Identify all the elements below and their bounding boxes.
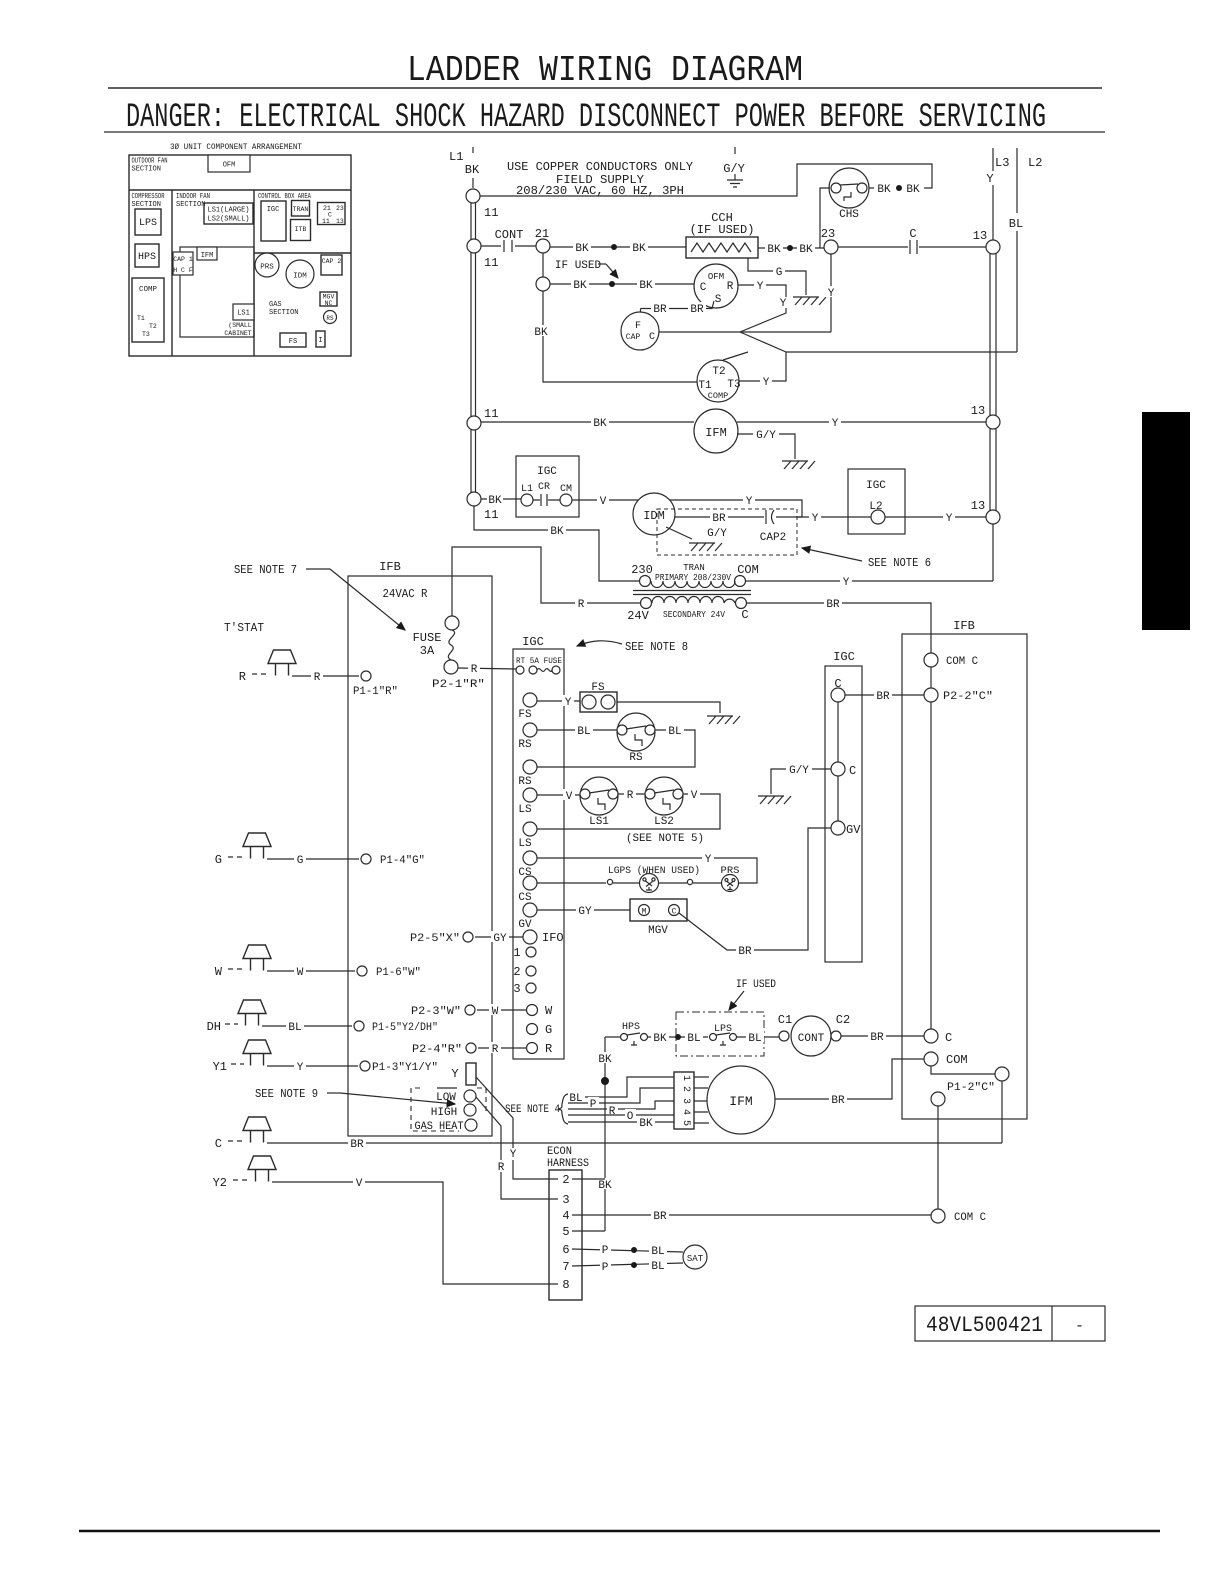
svg-text:SEE NOTE 9: SEE NOTE 9 [255,1087,318,1101]
svg-text:BR: BR [690,304,704,316]
svg-text:M: M [642,908,647,917]
svg-text:BK: BK [573,280,587,292]
svg-text:BL: BL [668,726,681,738]
svg-text:BK: BK [767,244,781,256]
svg-text:Y: Y [757,281,764,293]
svg-text:Y2: Y2 [213,1176,227,1190]
svg-text:P1-5"Y2/DH": P1-5"Y2/DH" [372,1022,438,1034]
svg-text:HIGH: HIGH [431,1107,457,1119]
svg-text:C: C [741,608,748,622]
svg-text:LS2: LS2 [654,816,674,828]
svg-text:Y: Y [565,697,572,709]
svg-text:RS: RS [518,776,532,788]
svg-text:CONT: CONT [798,1033,825,1045]
svg-text:Y: Y [705,854,712,866]
svg-text:LOW: LOW [436,1092,456,1104]
svg-text:3: 3 [680,1098,691,1104]
svg-text:DANGER: ELECTRICAL SHOCK HAZAR: DANGER: ELECTRICAL SHOCK HAZARD DISCONNE… [126,99,1046,137]
svg-text:BK: BK [639,1118,653,1130]
svg-text:13: 13 [971,404,985,418]
svg-text:IFM: IFM [705,426,727,440]
svg-text:CR: CR [538,482,550,493]
svg-text:6: 6 [562,1243,569,1257]
svg-text:24VAC R: 24VAC R [383,587,428,601]
svg-text:LS: LS [518,804,532,816]
svg-text:IFM: IFM [729,1094,752,1109]
svg-text:SECTION: SECTION [132,166,161,174]
svg-text:C: C [909,227,916,241]
svg-text:13: 13 [971,499,985,513]
svg-text:11: 11 [484,508,498,522]
svg-text:G: G [776,267,783,279]
svg-text:LS: LS [518,838,532,850]
svg-text:IFO: IFO [542,931,564,945]
svg-text:LADDER WIRING DIAGRAM: LADDER WIRING DIAGRAM [407,50,803,91]
svg-text:L3: L3 [995,156,1009,170]
svg-text:BK: BK [593,418,607,430]
svg-text:(SMALL: (SMALL [228,322,252,329]
svg-text:W: W [492,1006,499,1018]
svg-text:Y: Y [297,1062,304,1074]
svg-text:BK: BK [575,243,589,255]
svg-text:BR: BR [738,946,752,958]
svg-text:P1-4"G": P1-4"G" [380,855,425,867]
svg-text:GV: GV [518,919,532,931]
svg-text:GAS: GAS [269,301,282,309]
svg-text:Y: Y [510,1149,517,1161]
svg-text:USE COPPER CONDUCTORS ONLY: USE COPPER CONDUCTORS ONLY [507,160,693,174]
svg-text:3: 3 [513,982,520,996]
svg-text:OUTDOOR FAN: OUTDOOR FAN [132,158,168,166]
svg-text:BL: BL [288,1022,301,1034]
svg-text:Y: Y [946,513,953,525]
svg-text:F: F [635,321,641,332]
svg-text:V: V [566,791,573,803]
svg-text:SECTION: SECTION [269,309,298,317]
svg-text:IGC: IGC [267,206,280,214]
svg-text:COM: COM [737,563,759,577]
svg-text:G: G [297,855,304,867]
svg-text:5: 5 [562,1225,569,1239]
svg-text:2: 2 [513,965,520,979]
svg-text:LS1: LS1 [589,816,609,828]
svg-text:CABINET): CABINET) [224,330,255,337]
svg-text:P2-1"R": P2-1"R" [432,679,485,691]
svg-text:R: R [627,790,634,802]
svg-text:O: O [627,1111,634,1123]
svg-text:2: 2 [562,1173,569,1187]
svg-text:TRAN: TRAN [683,563,705,573]
svg-text:230: 230 [631,563,653,577]
svg-text:HARNESS: HARNESS [547,1158,589,1170]
svg-text:H C F: H C F [173,267,193,274]
svg-text:FS: FS [518,709,532,721]
svg-text:HPS: HPS [138,252,156,263]
svg-text:MGV: MGV [648,925,668,937]
svg-text:V: V [600,496,607,508]
svg-text:T1: T1 [137,315,145,322]
svg-text:TRAN: TRAN [293,206,309,213]
svg-text:IGC: IGC [833,650,855,664]
svg-text:L2: L2 [1028,156,1042,170]
svg-text:SECTION: SECTION [176,201,205,209]
svg-text:R: R [498,1162,505,1174]
svg-text:LPS: LPS [139,218,157,229]
svg-text:BL: BL [748,1033,761,1045]
svg-text:Y: Y [451,1067,458,1081]
svg-text:BR: BR [653,1211,667,1223]
svg-text:ITB: ITB [295,226,307,233]
svg-text:SECTION: SECTION [132,201,161,209]
svg-text:11: 11 [322,218,330,225]
svg-text:I: I [318,337,322,345]
svg-text:SEE NOTE 6: SEE NOTE 6 [868,556,931,570]
svg-text:IDM: IDM [293,273,307,281]
svg-text:HPS: HPS [622,1022,640,1033]
svg-text:COMPRESSOR: COMPRESSOR [132,193,166,201]
svg-text:T3: T3 [142,331,150,338]
svg-text:BR: BR [831,1095,845,1107]
svg-text:LS1(LARGE): LS1(LARGE) [208,207,250,215]
svg-text:NC: NC [325,300,333,307]
svg-text:W: W [215,965,223,979]
svg-text:R: R [492,1044,499,1056]
svg-text:T2: T2 [149,323,157,330]
svg-text:Y: Y [843,577,850,589]
svg-text:C2: C2 [836,1013,850,1027]
svg-text:Y: Y [780,298,787,310]
svg-text:P1-1"R": P1-1"R" [353,686,398,698]
svg-text:Y: Y [812,513,819,525]
svg-text:BK: BK [488,495,502,507]
svg-text:-: - [1075,1318,1084,1335]
svg-text:Y: Y [828,288,835,300]
svg-text:11: 11 [484,206,498,220]
svg-text:C: C [945,1031,952,1045]
svg-text:IGC: IGC [522,635,544,649]
svg-text:CAP2: CAP2 [760,532,786,544]
svg-text:SEE NOTE 8: SEE NOTE 8 [625,640,688,654]
svg-text:BR: BR [876,691,890,703]
svg-text:R: R [578,599,585,611]
svg-text:1: 1 [513,946,520,960]
svg-text:BL: BL [577,726,590,738]
svg-text:ECON: ECON [547,1146,572,1158]
svg-text:IF USED: IF USED [555,260,602,272]
svg-text:23: 23 [336,205,344,212]
svg-text:C: C [849,764,856,778]
svg-text:G/Y: G/Y [723,162,745,176]
svg-text:4: 4 [562,1209,569,1223]
svg-text:IGC: IGC [537,466,557,478]
svg-text:L1: L1 [449,150,463,164]
svg-text:4: 4 [680,1109,691,1115]
svg-text:V: V [691,790,698,802]
svg-text:COM C: COM C [946,656,978,668]
svg-text:IF USED: IF USED [736,979,776,991]
svg-text:BK: BK [632,243,646,255]
svg-text:BK: BK [550,526,564,538]
svg-text:LS2(SMALL): LS2(SMALL) [208,216,250,224]
svg-text:LS1: LS1 [237,310,250,318]
svg-text:8: 8 [562,1278,569,1292]
svg-text:P2-5"X": P2-5"X" [410,933,460,945]
svg-text:CS: CS [518,892,532,904]
svg-text:BK: BK [598,1054,612,1066]
svg-text:P2-4"R": P2-4"R" [412,1044,462,1056]
svg-text:P1-3"Y1/Y": P1-3"Y1/Y" [372,1062,438,1074]
svg-text:3A: 3A [420,644,435,658]
svg-text:BR: BR [870,1032,884,1044]
svg-text:Y: Y [832,418,839,430]
svg-text:BK: BK [534,327,548,339]
svg-text:Y: Y [746,496,753,508]
svg-text:P1-2"C": P1-2"C" [947,1082,995,1094]
svg-text:RT 5A FUSE: RT 5A FUSE [516,657,562,666]
svg-text:DH: DH [207,1020,221,1034]
svg-text:GAS HEAT: GAS HEAT [415,1121,464,1133]
svg-text:T'STAT: T'STAT [224,621,264,635]
svg-text:R: R [727,281,734,293]
svg-text:C: C [672,908,677,917]
svg-text:48VL500421: 48VL500421 [926,1313,1043,1338]
svg-text:GV: GV [846,823,861,837]
svg-text:24V: 24V [627,609,649,623]
svg-text:11: 11 [484,407,498,421]
svg-text:P: P [602,1245,609,1257]
svg-text:(SEE NOTE 5): (SEE NOTE 5) [626,833,704,845]
svg-text:BL: BL [687,1033,700,1045]
svg-text:C: C [700,282,707,294]
svg-text:COMP: COMP [708,391,728,401]
svg-text:COMP: COMP [139,286,158,294]
svg-text:IDM: IDM [643,509,665,523]
svg-text:5: 5 [680,1120,691,1126]
svg-text:GY: GY [578,906,592,918]
svg-text:SEE NOTE 7: SEE NOTE 7 [234,563,297,577]
svg-text:COM: COM [946,1053,968,1067]
svg-text:3Ø UNIT COMPONENT ARRANGEMENT: 3Ø UNIT COMPONENT ARRANGEMENT [170,142,302,152]
svg-text:BK: BK [465,163,480,177]
svg-text:G/Y: G/Y [789,765,809,777]
svg-text:RS: RS [326,315,334,322]
svg-text:C: C [649,332,655,343]
svg-text:BR: BR [826,599,840,611]
svg-text:R: R [239,670,246,684]
svg-text:G: G [215,853,222,867]
svg-text:OFM: OFM [708,272,724,282]
svg-text:2: 2 [680,1086,691,1092]
svg-text:S: S [715,294,722,306]
svg-text:BK: BK [906,184,920,196]
svg-text:BK: BK [877,184,891,196]
svg-text:BK: BK [653,1033,667,1045]
svg-text:13: 13 [973,229,987,243]
svg-text:R: R [471,664,478,676]
svg-text:P1-6"W": P1-6"W" [376,967,421,979]
svg-text:RS: RS [629,752,643,764]
svg-text:IFM: IFM [201,252,214,260]
svg-text:SAT: SAT [687,1254,704,1264]
svg-text:L1: L1 [521,484,533,495]
svg-text:BR: BR [712,513,726,525]
svg-text:CAP 2: CAP 2 [322,258,342,265]
svg-text:CM: CM [560,484,572,495]
svg-text:CAP 1: CAP 1 [173,256,193,263]
svg-text:SECONDARY 24V: SECONDARY 24V [663,610,726,620]
svg-text:R: R [609,1106,616,1118]
svg-text:W: W [297,967,304,979]
svg-text:G: G [545,1023,552,1037]
svg-text:7: 7 [562,1260,569,1274]
svg-text:GY: GY [493,933,507,945]
svg-text:CONT: CONT [495,228,524,242]
svg-text:R: R [314,672,321,684]
svg-text:BR: BR [653,304,667,316]
svg-text:P2-3"W": P2-3"W" [411,1006,461,1018]
svg-text:CAP: CAP [626,333,641,342]
svg-text:COM C: COM C [954,1212,986,1224]
svg-text:OFM: OFM [223,162,236,170]
svg-text:P: P [602,1262,609,1274]
svg-text:(IF USED): (IF USED) [690,223,755,237]
svg-text:IGC: IGC [866,480,886,492]
svg-text:RS: RS [518,739,532,751]
svg-text:3: 3 [562,1193,569,1207]
svg-text:13: 13 [336,218,344,225]
svg-text:BL: BL [651,1246,664,1258]
svg-text:Y: Y [986,172,993,186]
svg-text:BK: BK [598,1180,612,1192]
svg-text:SEE NOTE 4: SEE NOTE 4 [505,1104,560,1116]
svg-text:W: W [545,1004,553,1018]
svg-text:V: V [356,1178,363,1190]
svg-text:CHS: CHS [839,209,859,221]
svg-text:INDOOR FAN: INDOOR FAN [176,193,210,201]
svg-text:IFB: IFB [379,560,401,574]
svg-text:IFB: IFB [953,619,975,633]
svg-text:FUSE: FUSE [413,631,442,645]
svg-text:G/Y: G/Y [707,528,727,540]
svg-text:C1: C1 [778,1013,792,1027]
svg-text:BL: BL [1009,217,1023,231]
svg-text:Y: Y [763,377,770,389]
svg-text:BK: BK [799,244,813,256]
svg-text:1: 1 [680,1075,691,1081]
svg-text:11: 11 [484,256,498,270]
svg-text:23: 23 [821,227,835,241]
svg-text:Y1: Y1 [213,1060,227,1074]
svg-text:T3: T3 [727,379,740,391]
svg-text:FS: FS [289,338,297,346]
svg-text:R: R [545,1042,552,1056]
svg-text:BK: BK [639,280,653,292]
svg-text:T2: T2 [712,366,725,378]
svg-text:G/Y: G/Y [756,430,776,442]
svg-text:BR: BR [350,1139,364,1151]
svg-text:C: C [215,1137,222,1151]
svg-text:P2-2"C": P2-2"C" [943,691,993,703]
svg-text:BL: BL [651,1261,664,1273]
svg-text:PRIMARY 208/230V: PRIMARY 208/230V [655,573,732,583]
svg-text:PRS: PRS [260,264,274,272]
